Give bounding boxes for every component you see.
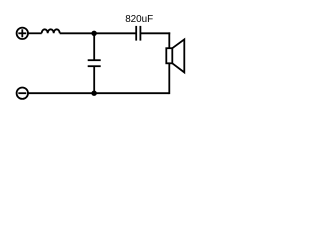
svg-text:820uF: 820uF — [125, 14, 153, 25]
